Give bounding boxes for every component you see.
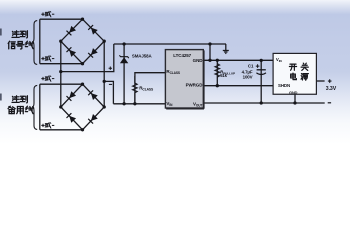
- node: BR2 E corner: [103, 105, 106, 108]
- resistor RCLASS: [133, 76, 154, 104]
- wire: E corners trunk BR1-BR2: [103, 41, 105, 107]
- diode D5 BR2 NW: [66, 91, 76, 101]
- wire: negative jog from E trunk down to bottom rail: [104, 81, 113, 103]
- left edge smudge top: [0, 29, 2, 36]
- diode D7 BR2 SW: [66, 113, 76, 123]
- diode D1 BR1 NW: [66, 26, 76, 36]
- diode D4 BR1 SE: [88, 48, 98, 58]
- switching supply box: [273, 53, 316, 95]
- node: BR1 W corner: [59, 40, 62, 43]
- node: zener top: [122, 42, 125, 45]
- wire: PWRGD to SHDN: [203, 85, 273, 87]
- svg-text:51k: 51k: [220, 73, 227, 78]
- node: W jog junction: [59, 70, 62, 73]
- wire: W corners trunk BR1-BR2: [60, 41, 62, 107]
- node: BR2 S corner: [81, 128, 84, 131]
- node: BR2 N corner: [81, 83, 84, 86]
- wire: RCLASS pin wire: [135, 73, 166, 104]
- wire: switcher GND stub: [294, 94, 296, 103]
- wire: signal pair top stub: [40, 18, 83, 20]
- label: + or - (BR1 bottom): [41, 56, 54, 62]
- left edge smudge bottom: [0, 94, 2, 101]
- diode bridge BR1 outline: [61, 19, 104, 64]
- resistor RPULLUP: [215, 64, 235, 79]
- svg-text:GND: GND: [289, 90, 298, 95]
- label: connect to spare line: [8, 96, 33, 114]
- node: C1 top: [260, 59, 263, 62]
- svg-text:SMAJ58A: SMAJ58A: [132, 54, 153, 59]
- diode D2 BR1 NE: [88, 25, 98, 35]
- wire: signal pair bracket vertical: [39, 19, 41, 64]
- label: output minus: [328, 102, 331, 104]
- svg-text:3.3V: 3.3V: [326, 86, 337, 92]
- node: E jog junction: [103, 80, 106, 83]
- diode D3 BR1 SW: [66, 47, 76, 57]
- node: GND drop top: [208, 42, 211, 45]
- svg-text:LTC4257: LTC4257: [173, 53, 191, 58]
- wire: bottom rail to VIN pin: [113, 103, 165, 105]
- label: + or - (BR2 top): [41, 76, 54, 82]
- node: GND rail tee: [208, 59, 211, 62]
- svg-text:PWRGD: PWRGD: [186, 83, 204, 88]
- wire: spare pair top stub: [40, 83, 83, 85]
- label: + or - (BR2 bottom): [41, 123, 54, 129]
- capacitor C1: [242, 64, 266, 80]
- diode D8 BR2 SE: [88, 114, 98, 124]
- node: BR1 E corner: [103, 40, 106, 43]
- wire: signal pair bottom stub: [40, 63, 83, 65]
- diode bridge BR2 outline: [61, 84, 104, 130]
- label: + or - (BR1 top): [41, 11, 54, 17]
- brace spare: [32, 85, 37, 129]
- svg-text:100V: 100V: [243, 75, 253, 80]
- wire: positive jog from W trunk up to top rail: [61, 44, 114, 72]
- label: bridge output plus: [109, 67, 112, 70]
- op-amp U1 LTC4257 IC box: [165, 50, 204, 109]
- svg-text:SHDN: SHDN: [278, 83, 290, 88]
- wire: VOUT rail: [203, 102, 324, 104]
- node: BR1 S corner: [81, 62, 84, 65]
- wire: GND rail to switcher VIN: [203, 59, 273, 61]
- diode D6 BR2 NE: [88, 90, 98, 100]
- node: RPULLUP top: [216, 59, 219, 62]
- label: connect to signal line: [8, 31, 33, 49]
- node: RPULLUP bottom: [216, 84, 219, 87]
- wire: GND pin drop: [209, 44, 211, 60]
- label: bridge output minus: [109, 83, 112, 85]
- svg-text:GND: GND: [193, 58, 204, 63]
- wire: spare pair bracket vertical: [39, 84, 41, 130]
- brace signal: [32, 21, 37, 65]
- svg-text:C1: C1: [248, 64, 254, 69]
- ground: [223, 44, 229, 53]
- wire: spare pair bottom stub: [40, 129, 83, 131]
- label: 3.3V output plus: [328, 79, 332, 83]
- wire: zener branch: [123, 44, 125, 104]
- wire: RPULLUP branch: [216, 60, 218, 85]
- zener D9 SMAJ58A: [119, 54, 152, 64]
- node: switcher GND junction: [293, 101, 296, 104]
- wire: 3.3V output plus: [316, 80, 324, 82]
- wire: top positive rail: [114, 43, 226, 45]
- wire: C1 branch: [260, 60, 262, 103]
- node: C1 bottom: [260, 101, 263, 104]
- node: zener bottom: [122, 102, 125, 105]
- node: BR2 W corner: [59, 105, 62, 108]
- node: BR1 N corner: [81, 18, 84, 21]
- node: RCLASS bottom: [133, 102, 136, 105]
